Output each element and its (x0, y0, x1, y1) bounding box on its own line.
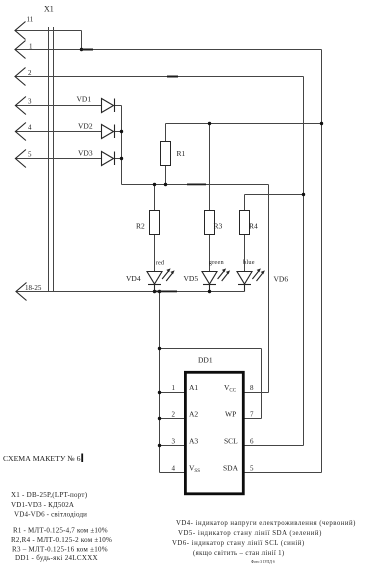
svg-text:R1: R1 (177, 149, 186, 158)
junction pin11/pin1 (80, 48, 83, 51)
resistor R3 (205, 211, 215, 235)
svg-text:A3: A3 (189, 436, 198, 445)
IC DD1 body (185, 372, 243, 494)
wire pin 3 stub (160, 445, 186, 447)
wire R3 bottom lead (209, 235, 211, 272)
wire R3 top lead (209, 124, 211, 211)
junction VD3 cathode (120, 157, 123, 160)
junction R3 top (208, 122, 211, 125)
junction VD5 cathode (208, 290, 211, 293)
junction pin 3 stub (158, 444, 161, 447)
svg-text:VD4- індикатор напруги електр: VD4- індикатор напруги електроживлення (… (176, 520, 356, 527)
bold mark y184 net (187, 184, 206, 186)
junction R1 net / SDA column (320, 122, 323, 125)
pin 11 arrow (15, 22, 26, 40)
svg-text:R3 – МЛТ-0.125-16 ком ±10%: R3 – МЛТ-0.125-16 ком ±10% (12, 545, 108, 553)
wire R1 top lead (165, 124, 167, 142)
wire ground branch to WP (160, 348, 262, 350)
svg-text:3: 3 (172, 437, 176, 445)
junction WP branch (158, 347, 161, 350)
wire R2 top lead (154, 185, 156, 211)
wire WP vertical (261, 349, 263, 419)
bold mark pin1 net (81, 49, 93, 51)
junction VD2 cathode (120, 130, 123, 133)
wire SCL column vertical (303, 77, 305, 446)
pin 2 arrow (15, 68, 26, 86)
svg-text:(якщо світить – стан лінії 1): (якщо світить – стан лінії 1) (193, 550, 285, 557)
junction pin 1 stub (158, 391, 161, 394)
svg-text:2: 2 (28, 69, 32, 77)
svg-text:5: 5 (250, 465, 254, 473)
wire pin 5 stub (243, 472, 321, 474)
svg-text:7: 7 (250, 411, 254, 419)
wire SDA column vertical (321, 50, 323, 473)
junction pin 2 stub (158, 417, 161, 420)
wire pin 1 stub (160, 392, 186, 394)
junction R2 top (153, 183, 156, 186)
text cursor bar (81, 454, 83, 463)
wire ground row 18-25 (16, 291, 245, 293)
junction VD4 cathode (153, 290, 156, 293)
wire ground drop vertical (159, 292, 161, 473)
diode VD2 (102, 125, 115, 139)
wire pin 2 net to SCL column (15, 76, 304, 78)
wire R1/R3 top net y123 (166, 123, 322, 125)
wire R1 bottom lead (165, 166, 167, 185)
svg-text:VD1-VD3 - КД502А: VD1-VD3 - КД502А (11, 501, 74, 509)
svg-text:18-25: 18-25 (25, 284, 42, 292)
svg-text:red: red (156, 260, 165, 267)
svg-text:4: 4 (172, 465, 176, 473)
svg-text:SCL: SCL (224, 436, 238, 445)
svg-text:VD2: VD2 (78, 122, 93, 131)
wire pin 8 stub (243, 392, 268, 394)
wire pin11-to-pin1 vertical (81, 31, 83, 50)
bold mark ground row (153, 291, 177, 293)
svg-text:X1: X1 (44, 5, 54, 14)
LED VD4 (147, 268, 175, 291)
svg-text:VD1: VD1 (77, 95, 92, 104)
diode VD1 (102, 99, 115, 113)
pin 1 arrow (15, 41, 26, 59)
svg-text:4: 4 (28, 124, 32, 132)
svg-text:1: 1 (172, 384, 176, 392)
wire R2 bottom lead (154, 235, 156, 272)
svg-text:5: 5 (28, 151, 32, 159)
svg-text:VD5: VD5 (184, 274, 199, 283)
svg-text:SDA: SDA (223, 464, 239, 473)
svg-text:11: 11 (27, 16, 34, 24)
pin 4 arrow (15, 123, 26, 141)
svg-text:VD5- індикатор стану лінії SDA: VD5- індикатор стану лінії SDA (зелений) (178, 530, 322, 537)
svg-text:VD6: VD6 (274, 275, 289, 284)
svg-text:R2: R2 (136, 222, 145, 231)
svg-text:VD6- індикатор стану лінії SCL: VD6- індикатор стану лінії SCL (синій) (172, 540, 305, 547)
svg-text:blue: blue (243, 259, 255, 266)
resistor R4 (240, 211, 250, 235)
wire pin 6 stub (243, 445, 303, 447)
svg-text:Х1 - DB-25P,(LPT-порт): Х1 - DB-25P,(LPT-порт) (11, 491, 88, 499)
svg-text:3: 3 (28, 98, 32, 106)
wire Vcc net horizontal y184 (122, 184, 269, 186)
svg-text:1: 1 (29, 43, 33, 51)
wire pin 3 to VD1 (15, 105, 121, 107)
wire pin 7 stub (243, 418, 261, 420)
wire pin 5 to VD3 (15, 158, 121, 160)
wire diode cathode bus vertical (121, 106, 123, 185)
LED VD6 (237, 268, 265, 291)
svg-text:WP: WP (225, 410, 236, 419)
svg-text:R2,R4 - МЛТ-0.125-2 ком ±10%: R2,R4 - МЛТ-0.125-2 ком ±10% (11, 536, 112, 544)
svg-text:A1: A1 (189, 383, 198, 392)
bold mark pin2 net (167, 76, 178, 78)
wire R4 top horizontal to SCL net (245, 194, 304, 196)
svg-text:8: 8 (250, 384, 254, 392)
wire pin 4 to VD2 (15, 131, 121, 133)
pin 5 arrow (15, 150, 26, 168)
wire pin 2 stub (160, 418, 186, 420)
wire Vcc net vertical to pin 8 (268, 185, 270, 393)
svg-text:Фото 3 ІУЛД б: Фото 3 ІУЛД б (251, 560, 275, 564)
diode VD3 (102, 152, 115, 166)
pin 3 arrow (15, 97, 26, 115)
svg-text:R4: R4 (249, 222, 258, 231)
svg-text:R1 - МЛТ-0.125-4,7 ком ±10%: R1 - МЛТ-0.125-4,7 ком ±10% (13, 527, 108, 535)
resistor R2 (150, 211, 160, 235)
wire pin 4 stub (160, 472, 186, 474)
junction ground drop (158, 290, 161, 293)
svg-text:VD4-VD6 - світлодіоди: VD4-VD6 - світлодіоди (14, 510, 87, 518)
svg-text:R3: R3 (214, 222, 223, 231)
svg-text:VD3: VD3 (78, 149, 93, 158)
wire R4 bottom lead (244, 235, 246, 272)
svg-text:VD4: VD4 (126, 274, 141, 283)
wire pin 11 row (15, 30, 82, 32)
svg-text:СХЕМА МАКЕТУ № 6: СХЕМА МАКЕТУ № 6 (3, 454, 81, 463)
pin 18-25 arrow (16, 283, 27, 301)
svg-text:2: 2 (172, 411, 176, 419)
connector X1 body (49, 27, 54, 292)
junction R1 bottom (164, 183, 167, 186)
svg-text:DD1: DD1 (198, 356, 213, 365)
svg-text:A2: A2 (189, 410, 198, 419)
wire R4 top lead (244, 195, 246, 211)
resistor R1 (161, 142, 171, 166)
svg-text:DD1 - будь-які 24LCХХХ: DD1 - будь-які 24LCХХХ (15, 554, 98, 562)
wire pin 1 net to SDA column (15, 49, 322, 51)
LED VD5 (202, 268, 230, 291)
svg-text:6: 6 (250, 437, 254, 445)
svg-text:green: green (209, 259, 225, 266)
junction R4 / SCL column (302, 193, 305, 196)
